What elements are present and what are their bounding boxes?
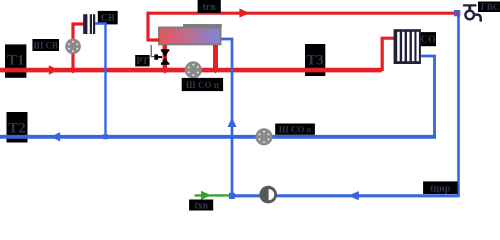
arrow red top line [239, 8, 249, 17]
arrow blue T2 left [51, 132, 61, 141]
wire blue cold inlet riser to tank [222, 39, 233, 195]
label PT [135, 55, 149, 66]
svg-text:Ш СО п: Ш СО п [186, 80, 219, 90]
heat exchanger CB bars [83, 14, 95, 34]
wire green cold water inlet [195, 194, 229, 196]
node T2 label box [7, 112, 28, 143]
arrow blue circulation left [348, 191, 359, 200]
junction red at CB branch [69, 66, 76, 73]
wire blue from CB exchanger [95, 24, 106, 136]
wire red tank leg 1 [163, 45, 168, 70]
arrow green right [201, 191, 211, 200]
faucet tap [463, 4, 481, 21]
wire red tank leg 2 [213, 45, 218, 70]
svg-text:Т3: Т3 [306, 53, 324, 69]
arrow blue up riser [228, 117, 237, 127]
svg-text:Т1: Т1 [7, 53, 25, 69]
label Sh CO o [275, 124, 315, 135]
node T1 label box [5, 44, 26, 77]
label thv [189, 200, 213, 211]
wire red hot water out to tap [148, 13, 454, 40]
node T3 label box [305, 44, 325, 76]
label CB [98, 11, 118, 25]
label tgv [198, 0, 221, 13]
tank heat exchanger body [158, 27, 222, 46]
label tcir [423, 181, 458, 194]
svg-text:tцир: tцир [430, 183, 451, 194]
pump Sh CO p [185, 61, 202, 78]
svg-text:Ш СО о: Ш СО о [279, 124, 312, 134]
pump Sh CB [65, 39, 81, 55]
wire red branch to CB exchanger [73, 24, 84, 70]
valve actuator PT [154, 54, 158, 59]
junction blue at CB drop [103, 134, 108, 139]
arrow red main line [49, 65, 59, 74]
junction red at tank leg 2 [212, 66, 219, 73]
wire red supply main T1 [0, 68, 382, 73]
svg-text:СО: СО [421, 35, 436, 46]
svg-text:РТ: РТ [137, 56, 149, 66]
label Sh CO p [182, 78, 223, 91]
valve PT body [161, 49, 169, 65]
wire blue circulation vertical [457, 15, 460, 196]
svg-text:tхв: tхв [194, 201, 208, 212]
pump Sh CO o [255, 128, 272, 145]
label GVS [478, 2, 500, 13]
junction red at valve leg [161, 67, 168, 74]
capillary line PT [151, 45, 154, 57]
node junction at tap [454, 10, 460, 16]
svg-text:ГВС: ГВС [481, 3, 500, 13]
radiator CO [394, 29, 421, 64]
wire blue T2 return main [0, 135, 436, 139]
wire blue circulation bottom [232, 194, 460, 197]
label Sh CB [32, 39, 59, 51]
node junction cold water mix [229, 193, 235, 199]
label CO [421, 32, 436, 46]
tank heat exchanger back ledge [183, 24, 222, 27]
svg-text:tгв: tгв [203, 2, 217, 13]
wire blue from radiator [421, 56, 435, 136]
svg-text:Ш СВ: Ш СВ [33, 41, 58, 51]
pump circulation [259, 186, 277, 204]
svg-text:Т2: Т2 [8, 121, 26, 137]
wire red riser to radiator [382, 38, 394, 71]
